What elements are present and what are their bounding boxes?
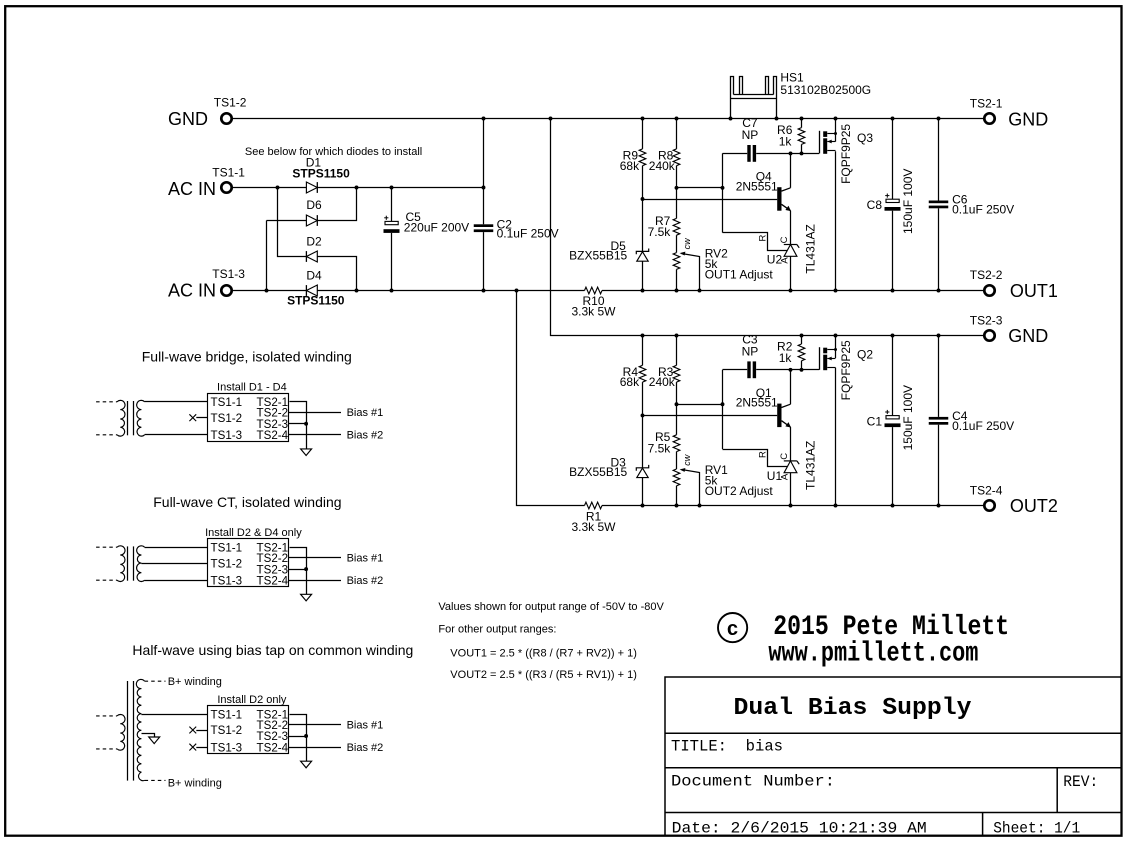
wire OUT1 rail branch down to OUT2 rail	[517, 291, 585, 506]
wire GND rail (top)	[233, 118, 983, 120]
wire Q1 collector	[790, 370, 792, 404]
svg-text:TS1-3: TS1-3	[211, 574, 243, 587]
wire ref pin route of U2	[723, 233, 788, 251]
svg-text:3.3k 5W: 3.3k 5W	[571, 304, 616, 318]
wire AC input line to D1 / rectifier output node	[233, 187, 306, 189]
wire OUT1 rail (bottom of bridge to TS2-2)	[233, 290, 306, 292]
wire TS2-3 to ground node	[289, 736, 306, 738]
svg-text:2N5551: 2N5551	[736, 396, 778, 410]
resistor R10	[585, 287, 602, 294]
junction dots on OUT1 rail	[265, 289, 269, 293]
mosfet Q2 (FQPF9P25)	[819, 347, 821, 370]
wire GND rail feeder down to second GND rail	[551, 119, 984, 336]
wire Q1 emitter to U1 cathode	[790, 427, 792, 461]
resistor R9 (68k)	[642, 119, 644, 149]
svg-text:1k: 1k	[779, 135, 793, 149]
junction dots on AC line	[276, 186, 280, 190]
svg-text:TS1-2: TS1-2	[211, 724, 243, 737]
svg-text:Sheet: 1/1: Sheet: 1/1	[993, 819, 1080, 837]
terminal TS1-2 (GND input)	[221, 113, 231, 123]
wire D2 branch	[278, 188, 307, 257]
svg-text:Document Number:: Document Number:	[671, 772, 835, 790]
wire TS2-4 to Bias #2	[289, 580, 341, 582]
svg-text:Install D2 only: Install D2 only	[217, 694, 287, 706]
svg-text:Date: 2/6/2015 10:21:39 AM: Date: 2/6/2015 10:21:39 AM	[672, 819, 927, 837]
svg-text:0.1uF 250V: 0.1uF 250V	[497, 226, 559, 240]
svg-text:TS1-2: TS1-2	[211, 412, 243, 425]
svg-text:Half-wave using bias tap on co: Half-wave using bias tap on common windi…	[132, 642, 413, 658]
svg-text:68k: 68k	[620, 159, 640, 173]
transformer secondary winding	[137, 400, 145, 436]
svg-text:B+ winding: B+ winding	[168, 778, 222, 790]
svg-text:TS2-4: TS2-4	[257, 429, 289, 442]
wire bias tap to TS1-1 (half-wave)	[141, 714, 208, 716]
svg-text:Bias #1: Bias #1	[347, 553, 384, 565]
svg-text:See below for which diodes to: See below for which diodes to install	[245, 146, 422, 158]
resistor R2 (1k)	[801, 336, 803, 345]
wire center tap to TS1-2	[141, 563, 208, 565]
shunt regulator U1 (TL431AZ)	[784, 460, 797, 462]
svg-text:Full-wave CT, isolated winding: Full-wave CT, isolated winding	[153, 494, 341, 510]
svg-text:1k: 1k	[779, 351, 793, 365]
wire Q4 collector	[790, 153, 792, 187]
transformer core (half-wave)	[127, 681, 129, 781]
terminal TS1-1 (AC IN)	[221, 182, 231, 192]
wire winding tap to ground (half-wave)	[142, 734, 155, 738]
wiper of RV2	[682, 254, 700, 291]
resistor R3 (240k)	[676, 336, 678, 366]
terminal TS2-3 (GND out)	[984, 330, 994, 340]
svg-text:TS2-3: TS2-3	[970, 313, 1003, 327]
svg-text:0.1uF 250V: 0.1uF 250V	[952, 419, 1014, 433]
wire U2 anode	[790, 256, 792, 290]
svg-text:2N5551: 2N5551	[736, 179, 778, 193]
svg-text:Q3: Q3	[857, 131, 873, 145]
svg-text:TS1-3: TS1-3	[212, 267, 245, 281]
transformer primary winding (half-wave)	[117, 715, 125, 751]
svg-text:OUT2: OUT2	[1010, 496, 1058, 516]
svg-text:150uF 100V: 150uF 100V	[901, 169, 915, 234]
title block outline	[665, 677, 1121, 836]
wire TS1-3 unconnected with X (half-wave)	[196, 747, 208, 749]
svg-text:3.3k 5W: 3.3k 5W	[571, 520, 616, 534]
primary dashed leads	[96, 546, 117, 548]
junction dots on OUT2 rail	[641, 504, 645, 508]
transformer core	[127, 401, 129, 435]
junction dots on GND rail	[482, 117, 486, 121]
terminal TS1-3 (AC IN)	[221, 285, 231, 295]
svg-text:TS2-2: TS2-2	[970, 268, 1003, 282]
svg-text:Q2: Q2	[857, 348, 873, 362]
svg-text:NP: NP	[742, 128, 759, 142]
wire Q3 source to GND rail	[835, 119, 837, 142]
capacitor C4 (0.1uF 250V)	[938, 336, 940, 417]
terminal TS2-1 (GND out)	[984, 113, 994, 123]
transformer core	[127, 546, 129, 580]
svg-text:TS1-1: TS1-1	[212, 165, 245, 179]
svg-text:Bias #1: Bias #1	[347, 720, 384, 732]
wire TS1-2 unconnected with X	[196, 417, 208, 419]
capacitor C3 (NP)	[723, 369, 748, 371]
svg-text:www.pmillett.com: www.pmillett.com	[768, 639, 978, 670]
junction dots on second GND rail	[641, 334, 645, 338]
svg-text:For other output ranges:: For other output ranges:	[438, 624, 556, 636]
wire secondary to TS1-3	[145, 580, 208, 582]
svg-text:Full-wave bridge, isolated win: Full-wave bridge, isolated winding	[142, 349, 352, 365]
wire divider column C3 to ref pin	[722, 370, 724, 449]
resistor R8 (240k)	[676, 119, 678, 149]
wire C3 to gate node	[756, 369, 819, 371]
wire secondary to TS1-1	[145, 401, 208, 403]
node wire R8 bottom to divider column	[677, 187, 723, 189]
wire divider column C7 to ref pin	[722, 153, 724, 232]
svg-text:cw: cw	[682, 238, 692, 250]
diode D4	[306, 285, 317, 296]
terminal TS2-2 (OUT1)	[984, 285, 994, 295]
svg-text:cw: cw	[682, 454, 692, 466]
svg-text:AC IN: AC IN	[168, 179, 216, 199]
wire U1 anode	[790, 473, 792, 506]
svg-text:TS1-3: TS1-3	[211, 429, 243, 442]
resistor R1	[585, 502, 602, 509]
svg-text:GND: GND	[168, 109, 208, 129]
svg-text:D2: D2	[306, 235, 322, 249]
ground	[301, 594, 312, 601]
svg-text:c: c	[727, 619, 739, 642]
svg-text:Dual Bias Supply: Dual Bias Supply	[734, 695, 972, 722]
wire Q2 drain to out rail	[835, 368, 837, 506]
svg-text:TS1-3: TS1-3	[211, 741, 243, 754]
terminal TS2-4 (OUT2)	[984, 500, 994, 510]
capacitor C7 (NP)	[723, 153, 748, 155]
svg-text:7.5k: 7.5k	[648, 442, 672, 456]
svg-text:STPS1150: STPS1150	[292, 167, 350, 181]
capacitor C8 (150uF 100V)	[892, 119, 894, 200]
svg-text:Bias #2: Bias #2	[347, 742, 384, 754]
wire TS2-4 to Bias #2	[289, 434, 341, 436]
svg-text:TS1-1: TS1-1	[211, 541, 243, 554]
svg-text:TL431AZ: TL431AZ	[804, 224, 818, 273]
wire C7 to gate node	[756, 153, 819, 155]
svg-text:TS1-1: TS1-1	[211, 708, 243, 721]
svg-text:OUT2 Adjust: OUT2 Adjust	[705, 484, 774, 498]
svg-text:Bias #2: Bias #2	[347, 430, 384, 442]
svg-text:R: R	[758, 451, 769, 458]
svg-text:220uF 200V: 220uF 200V	[404, 221, 469, 235]
capacitor C5	[391, 188, 393, 222]
svg-text:B+ winding: B+ winding	[168, 676, 222, 688]
wire TS2-1 to ground	[290, 402, 307, 449]
primary dashed leads (half-wave)	[96, 715, 117, 717]
svg-text:STPS1150: STPS1150	[287, 293, 345, 307]
svg-text:GND: GND	[1008, 109, 1048, 129]
svg-text:513102B02500G: 513102B02500G	[780, 83, 871, 97]
svg-text:TITLE: bias: TITLE: bias	[671, 737, 783, 755]
svg-text:D4: D4	[306, 268, 322, 282]
svg-text:Install D2 & D4 only: Install D2 & D4 only	[205, 527, 302, 539]
svg-text:TS2-4: TS2-4	[257, 741, 289, 754]
B+ winding dashed lead (top)	[145, 680, 166, 682]
capacitor C6 (0.1uF 250V)	[938, 119, 940, 201]
wire TS2-1 to ground	[290, 715, 307, 762]
terminal strip box	[208, 394, 289, 442]
potentiometer RV1 (5k)	[673, 469, 680, 486]
transformer common winding (half-wave, tall)	[136, 679, 144, 780]
B+ winding dashed lead (bottom)	[145, 779, 166, 781]
svg-text:FQPF9P25: FQPF9P25	[839, 124, 853, 184]
svg-text:240k: 240k	[649, 159, 676, 173]
svg-text:VOUT1 = 2.5 * ((R8 / (R7 + RV2: VOUT1 = 2.5 * ((R8 / (R7 + RV2)) + 1)	[450, 648, 637, 660]
wire TS2-4 to Bias #2	[289, 747, 341, 749]
svg-text:D6: D6	[306, 198, 322, 212]
resistor R5 (7.5k)	[676, 404, 678, 435]
wire D6 branch	[267, 220, 307, 222]
zener diode D5 (BZX55B15)	[642, 199, 644, 251]
resistor R6 (1k)	[801, 119, 803, 128]
wiper of RV1	[682, 470, 700, 506]
svg-text:U1: U1	[767, 469, 783, 483]
mosfet Q3 (FQPF9P25)	[819, 131, 821, 154]
wire TS1-2 unconnected with X (half-wave)	[196, 730, 208, 732]
node wire R3 bottom to divider column	[677, 404, 723, 406]
svg-text:AC IN: AC IN	[168, 281, 216, 301]
svg-text:C1: C1	[867, 414, 883, 428]
transformer primary winding	[117, 400, 125, 436]
svg-text:C: C	[779, 453, 790, 460]
svg-text:BZX55B15: BZX55B15	[569, 248, 627, 262]
svg-text:68k: 68k	[620, 375, 640, 389]
diode D2	[306, 251, 317, 262]
wire Q4 emitter to U2 cathode	[790, 211, 792, 245]
transformer secondary winding	[137, 546, 145, 582]
svg-text:TS2-4: TS2-4	[970, 484, 1003, 498]
diode D6	[306, 215, 317, 226]
svg-text:R: R	[758, 235, 769, 242]
svg-text:TS2-1: TS2-1	[970, 97, 1003, 111]
zener diode D3 (BZX55B15)	[642, 415, 644, 467]
svg-text:FQPF9P25: FQPF9P25	[839, 340, 853, 400]
wire TS2-3 to ground node	[289, 569, 306, 571]
terminal strip box	[208, 539, 289, 587]
svg-text:TS1-1: TS1-1	[211, 396, 243, 409]
wire ref pin route of U1	[723, 450, 788, 467]
svg-text:Bias #1: Bias #1	[347, 407, 384, 419]
ground (half-wave tap)	[149, 737, 160, 744]
svg-text:TL431AZ: TL431AZ	[804, 441, 818, 490]
svg-text:Install D1 - D4: Install D1 - D4	[217, 382, 287, 394]
wire TS2-1 to ground	[290, 548, 307, 595]
svg-text:TS1-2: TS1-2	[211, 557, 243, 570]
transistor Q1 (2N5551)	[777, 404, 781, 428]
svg-text:OUT1: OUT1	[1010, 281, 1058, 301]
svg-text:150uF 100V: 150uF 100V	[901, 385, 915, 450]
svg-text:BZX55B15: BZX55B15	[569, 465, 627, 479]
svg-text:0.1uF 250V: 0.1uF 250V	[952, 203, 1014, 217]
shunt regulator U2 (TL431AZ)	[784, 244, 797, 246]
wire TS2-3 to ground node	[289, 423, 306, 425]
potentiometer RV2 (5k)	[673, 253, 680, 270]
wire Q2 source to GND rail	[835, 336, 837, 359]
svg-text:NP: NP	[742, 345, 759, 359]
svg-text:7.5k: 7.5k	[648, 225, 672, 239]
svg-text:240k: 240k	[649, 375, 676, 389]
primary dashed leads	[96, 401, 117, 403]
wire secondary to TS1-1	[145, 547, 208, 549]
wire TS2-2 to Bias #1	[289, 724, 341, 726]
terminal strip box	[208, 706, 289, 754]
heatsink HS1	[731, 77, 777, 119]
svg-text:GND: GND	[1008, 326, 1048, 346]
ground	[301, 761, 312, 768]
resistor R7 (7.5k)	[676, 188, 678, 219]
svg-text:REV:: REV:	[1063, 773, 1098, 791]
svg-text:C8: C8	[867, 198, 883, 212]
svg-text:OUT1 Adjust: OUT1 Adjust	[705, 267, 774, 281]
copyright symbol	[718, 613, 747, 642]
diode D1	[306, 182, 317, 193]
transformer primary winding	[117, 546, 125, 582]
svg-text:TS2-4: TS2-4	[257, 574, 289, 587]
svg-text:VOUT2 = 2.5 * ((R3 / (R5 + RV1: VOUT2 = 2.5 * ((R3 / (R5 + RV1)) + 1)	[450, 669, 637, 681]
svg-text:U2: U2	[767, 253, 783, 267]
capacitor C1 (150uF 100V)	[892, 336, 894, 416]
wire Q3 drain to out rail	[835, 151, 837, 290]
wire secondary to TS1-3	[145, 434, 208, 436]
wire TS2-2 to Bias #1	[289, 412, 341, 414]
wire TS2-2 to Bias #1	[289, 557, 341, 559]
ground	[301, 449, 312, 456]
svg-text:Bias #2: Bias #2	[347, 575, 384, 587]
svg-text:Values shown for output range: Values shown for output range of -50V to…	[438, 601, 664, 613]
svg-text:TS1-2: TS1-2	[214, 96, 247, 110]
wire base line R9 to Q4 base	[641, 197, 645, 201]
svg-text:C: C	[779, 236, 790, 243]
wire base line R4 to Q1 base	[641, 413, 645, 417]
resistor R4 (68k)	[642, 336, 644, 366]
capacitor C2	[483, 119, 485, 225]
transistor Q4 (2N5551)	[777, 187, 781, 211]
